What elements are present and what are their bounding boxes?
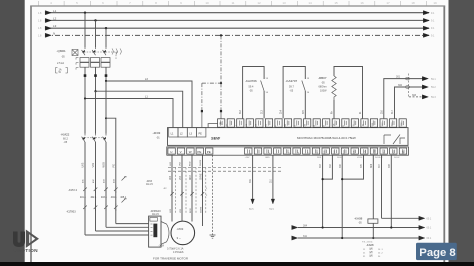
svg-text:12: 12 [257, 1, 261, 5]
node L2 drop junction [94, 19, 96, 21]
relay KA3706 contact [261, 81, 265, 92]
svg-text:NC: NC [403, 150, 405, 154]
bus left tiny refs [38, 12, 42, 37]
net 311 left arrow [292, 236, 298, 240]
cable shield dashed line 2 [168, 170, 281, 172]
cable tag W1T03 lower [122, 199, 126, 203]
wire L3 feed to drive [106, 81, 192, 128]
wire breaker out pole2 [95, 67, 97, 91]
svg-text:4G1.5: 4G1.5 [152, 213, 159, 216]
net 311 right arrow [419, 236, 425, 240]
ruler numbers [50, 1, 437, 5]
right gray video strip [449, 0, 474, 266]
node PE [220, 82, 222, 84]
svg-text:15: 15 [334, 1, 338, 5]
svg-text:GND: GND [375, 149, 377, 154]
svg-text:GNYE: GNYE [200, 159, 202, 166]
offpage arrow KA08 [419, 216, 425, 220]
svg-text:404.1: 404.1 [111, 197, 117, 199]
offpage labels right bottom [427, 218, 432, 241]
svg-text:U03: U03 [81, 162, 85, 167]
node coil to net311 [372, 237, 374, 239]
svg-text:-RB07: -RB07 [318, 76, 327, 80]
motor cable lower labels [170, 206, 203, 213]
motor terminal box X2A [149, 216, 161, 247]
svg-text:V03: V03 [91, 162, 95, 167]
svg-text:2.5 kA: 2.5 kA [57, 62, 64, 65]
drive top terminal row [218, 119, 407, 127]
drive input terminal L1 [169, 128, 178, 137]
digital input wire 306 [341, 155, 343, 237]
svg-text:-05: -05 [290, 90, 294, 93]
PE dash-dot vertical to drive PE [201, 83, 203, 110]
svg-text:100W: 100W [320, 90, 327, 93]
svg-text:59.4: 59.4 [249, 86, 254, 89]
drive input terminal PE [197, 128, 206, 137]
cable marker ellipse 2 [405, 86, 409, 89]
wire below squares [202, 112, 221, 127]
N dash-dot drop to P1 [220, 35, 222, 110]
watermark logo play arrow [26, 230, 39, 248]
svg-text:FOR TRAVERSE MOTOR: FOR TRAVERSE MOTOR [153, 256, 189, 260]
net 304 right arrow [419, 225, 425, 229]
node L1 feed [84, 97, 86, 99]
svg-text:59.1: 59.1 [431, 78, 436, 81]
terminal X1T2 col4 [114, 186, 118, 194]
relay KA3707 frame [283, 67, 305, 119]
terminal X1T803 col1 [83, 204, 87, 212]
motor terminal box tiny pins [151, 224, 153, 235]
terminal square pole1 [84, 74, 87, 77]
wire W03 to motor [106, 226, 149, 228]
svg-text:+24V: +24V [245, 157, 251, 159]
svg-text:60.1: 60.1 [427, 218, 432, 221]
breaker QM01 setting bracket [56, 68, 68, 74]
drive input terminal L2 [178, 128, 187, 137]
motor M03 circle [171, 221, 195, 245]
wire L1 feed to drive [85, 99, 173, 128]
wire L2 feed to drive [96, 91, 183, 127]
svg-text:24V: 24V [365, 149, 367, 153]
wire PE jog [106, 118, 116, 223]
bus L3 left arrow [45, 26, 51, 30]
wire breaker out pole1 [84, 67, 86, 98]
offpage arrow 2 [422, 85, 428, 89]
svg-text:SEW: SEW [211, 136, 220, 141]
svg-text:-KA08: -KA08 [354, 217, 363, 221]
svg-text:L2: L2 [53, 17, 57, 21]
left gray video strip [0, 0, 25, 266]
bus N wire (dashed) [45, 34, 429, 36]
svg-text:-QM01: -QM01 [57, 49, 67, 53]
breaker QM01 trip elements [112, 49, 121, 55]
node jumper 1 [322, 178, 324, 180]
drive cable wire U [171, 155, 173, 221]
svg-text:-X1T803: -X1T803 [66, 211, 76, 214]
svg-text:-M03: -M03 [177, 227, 184, 231]
cable wire labels [170, 173, 203, 180]
wire phase col1 down to KM22 [84, 99, 86, 134]
svg-text:N: N [53, 31, 55, 35]
node N bus tap [220, 34, 222, 36]
bus L3 wire [45, 27, 429, 29]
svg-text:59.5: 59.5 [269, 209, 274, 211]
ruler ticks [38, 1, 426, 6]
svg-text:+R: +R [334, 123, 336, 126]
node jumper 2 [341, 178, 343, 180]
analog out wire 1 with down arrow [252, 155, 254, 199]
wire breaker out pole3 [105, 67, 107, 81]
digital input wire 302 jumper [323, 155, 333, 179]
drive cable wire PE2 dashed [212, 155, 214, 235]
svg-text:-01: -01 [156, 137, 160, 140]
cable shield dashed line 1 [168, 167, 281, 169]
analog out wire 2 with down arrow [272, 155, 274, 199]
svg-text:3 ~: 3 ~ [177, 236, 182, 240]
wire phase col2 down to KM22 [95, 91, 97, 133]
bottom row right cell labels [250, 149, 406, 154]
svg-text:L3: L3 [53, 24, 57, 28]
contactor KM22 linkage [82, 137, 104, 139]
wire DO down 2 [390, 155, 392, 227]
right drop wire labels [320, 163, 391, 168]
wire U03 down [84, 142, 86, 235]
wire V03 down [95, 142, 97, 231]
svg-text:405.1: 405.1 [120, 197, 126, 199]
svg-text:304: 304 [303, 225, 308, 228]
digital input wire 303 [322, 155, 324, 227]
svg-text:11: 11 [231, 1, 234, 5]
bottom black bar [0, 262, 474, 266]
svg-text:16: 16 [360, 1, 364, 5]
bus right tiny refs [431, 12, 435, 37]
svg-text:-05: -05 [61, 56, 65, 59]
PE net end square [201, 110, 203, 112]
bus L2 right arrow [423, 18, 429, 22]
bus L1 left arrow [45, 11, 51, 15]
svg-text:17: 17 [386, 1, 390, 5]
drawing frame border top [30, 5, 445, 7]
svg-text:4 POLES: 4 POLES [173, 251, 184, 254]
svg-text:W03: W03 [190, 175, 192, 180]
node L1 drop junction [84, 12, 86, 14]
motor cable screen dashed verticals [176, 168, 206, 214]
svg-text:PE: PE [207, 150, 211, 154]
node L2 feed [94, 90, 96, 92]
wire drop L2 to breaker [95, 20, 97, 47]
offpage wire labels [431, 78, 436, 99]
bus L2 left arrow [45, 18, 51, 22]
relay KA08 feed wire [372, 155, 374, 219]
down arrow 2 [271, 199, 275, 204]
svg-text:-KA3706: -KA3706 [245, 79, 257, 83]
svg-text:N06: N06 [371, 163, 373, 168]
terminal X1T803 col2 [94, 204, 98, 212]
breaker QM01 handle symbol [72, 50, 78, 56]
svg-text:DO02: DO02 [394, 157, 400, 159]
bus N left arrow [45, 33, 51, 37]
wire drop L3 to breaker [105, 28, 107, 47]
contactor KM22 pole 3 [103, 134, 106, 143]
svg-text:Page 8: Page 8 [419, 247, 455, 259]
svg-text:10: 10 [205, 1, 209, 5]
down arrow 1 [251, 199, 255, 204]
terminal X1T2 col1 [83, 186, 87, 194]
thermal overload block pole 3 [101, 58, 110, 68]
svg-text:V03: V03 [180, 175, 182, 180]
P1 net end square [220, 110, 222, 112]
bus L2 wire [45, 19, 429, 21]
horizontal net 301 (DO wire right) [382, 217, 420, 219]
motor terminal box inner connector [150, 217, 157, 221]
svg-text:-05: -05 [64, 141, 68, 144]
svg-text:MOVITRAC MC07B-0008-5A3-4-00 0: MOVITRAC MC07B-0008-5A3-4-00 0.75kW [297, 136, 356, 140]
svg-text:-KA3707: -KA3707 [286, 79, 298, 83]
svg-text:68Ohm: 68Ohm [319, 86, 327, 89]
node net304 b [390, 226, 392, 228]
offpage dashed wire 3 [409, 96, 423, 98]
thermal overload block pole 1 [80, 58, 89, 68]
cable marker ellipse 1 [405, 77, 409, 80]
svg-text:401.1: 401.1 [80, 197, 86, 199]
svg-text:PE: PE [197, 150, 201, 154]
wire phase col3 down to KM22 [105, 81, 107, 134]
svg-text:PE: PE [199, 132, 203, 135]
bus N right arrow [423, 33, 429, 37]
svg-text:UMOTION: UMOTION [13, 248, 38, 254]
wire W03 down [105, 142, 107, 227]
breaker QM01 pole 1 [82, 47, 85, 55]
svg-text:P.S. 24Vdc: P.S. 24Vdc [362, 241, 374, 243]
node L3 feed [105, 80, 107, 82]
breaker QM01 pole 3 [103, 47, 106, 55]
Page 8 badge [416, 243, 457, 260]
thermal overload block pole 2 [91, 58, 100, 68]
terminal X1T2 col2 [94, 186, 98, 194]
svg-text:W03: W03 [102, 162, 106, 168]
watermark logo U [13, 232, 25, 248]
digital input wire 305 jumper [342, 155, 363, 179]
wire labels above X1T2 row [83, 179, 116, 183]
motor terminal box gland (dark bar) [153, 224, 157, 238]
drive input terminal L3 [187, 128, 196, 137]
net 304 left arrow [292, 225, 298, 229]
motor cable mid labels [163, 188, 208, 197]
contactor KM22 pole 2 [92, 134, 95, 143]
svg-text:403.1: 403.1 [101, 197, 107, 199]
svg-text:R-: R- [360, 111, 362, 114]
svg-text:-X2A: -X2A [159, 244, 165, 247]
wire V03 to motor [96, 230, 149, 232]
svg-text:311: 311 [303, 235, 307, 238]
bus L3 right arrow [423, 26, 429, 30]
svg-text:U: U [170, 150, 172, 154]
terminal square pole2 [94, 74, 97, 77]
relay KA3707 contact [302, 81, 306, 92]
offpage arrow 1 [422, 77, 428, 81]
svg-text:59.2: 59.2 [431, 86, 436, 89]
bus L1 right arrow [423, 11, 429, 15]
svg-text:L1: L1 [53, 9, 57, 13]
relay KA08 coil [368, 219, 378, 223]
wire DO to offpage 2 [395, 87, 423, 118]
svg-text:GNYE: GNYE [201, 206, 203, 213]
relay KA08 coil bottom wire [372, 223, 374, 238]
svg-text:-X1T2 4: -X1T2 4 [68, 189, 78, 192]
svg-text:60.1: 60.1 [427, 237, 432, 240]
drive cable wire W [191, 155, 193, 221]
top row cell tick labels [220, 120, 403, 125]
svg-text:-4F03: -4F03 [153, 131, 161, 135]
node net304 a [322, 226, 324, 228]
wire drop L1 to breaker [84, 13, 86, 47]
drawing frame border right [443, 6, 445, 262]
offpage arrow 3 [422, 95, 428, 99]
KA08 contact glyphs [370, 248, 372, 257]
braking resistor RB07 zigzag [332, 76, 336, 100]
drive cable wire PE1 [202, 155, 204, 226]
bottom row U V W PE labels [170, 150, 211, 154]
terminal X1T803 col4 [114, 204, 118, 212]
svg-text:301: 301 [396, 76, 401, 79]
drive internal relay contact [384, 135, 405, 145]
svg-text:VO24: VO24 [357, 157, 363, 159]
svg-text:13: 13 [282, 1, 286, 5]
wire U03 to motor [85, 234, 149, 236]
bottom row cell tick labels [248, 149, 404, 153]
terminal square pole3 [105, 74, 108, 77]
svg-text:U03: U03 [170, 175, 172, 180]
svg-text:PE: PE [111, 164, 115, 168]
svg-text:-KM22: -KM22 [61, 133, 70, 137]
PE dash-dot horizontal [202, 82, 221, 84]
contactor KM22 pole 1 [82, 134, 85, 143]
cable marker dashed vertical [408, 74, 410, 98]
drawing frame border left [30, 6, 32, 262]
horizontal net 304 [298, 227, 419, 229]
bottom row sub labels [245, 157, 401, 159]
analog wire labels [250, 178, 272, 183]
node L3 drop junction [105, 27, 107, 29]
drive main box 4F03 [168, 128, 409, 146]
svg-text:V: V [180, 150, 182, 154]
ground symbol right of motor [210, 235, 216, 238]
thermal hooks left [76, 58, 79, 70]
svg-text:NO: NO [394, 150, 396, 154]
horizontal net 311 [298, 237, 419, 239]
braking resistor RB07 frame [334, 67, 363, 119]
svg-text:GNYE: GNYE [201, 173, 203, 180]
svg-text:60.1: 60.1 [427, 227, 432, 230]
node PE tap [105, 117, 107, 119]
motor flange [161, 222, 169, 245]
svg-text:59.3: 59.3 [431, 96, 436, 99]
breaker QM01 linkage dashed [84, 51, 119, 53]
svg-text:19: 19 [433, 1, 437, 5]
relay KA3706 frame [243, 67, 265, 119]
svg-text:-05: -05 [358, 221, 362, 224]
svg-text:W03: W03 [190, 208, 192, 213]
drive bottom terminal row [167, 147, 409, 155]
svg-text:402.1: 402.1 [91, 197, 97, 199]
svg-text:-KA08: -KA08 [366, 243, 374, 247]
terminal X1T803 col3 [104, 204, 108, 212]
P1 connector wire [208, 124, 218, 128]
svg-text:14: 14 [308, 1, 312, 5]
svg-text:GND: GND [265, 157, 270, 159]
wire DO down 1 [381, 155, 383, 218]
svg-text:-05: -05 [249, 90, 253, 93]
drive cable wire V [181, 155, 183, 221]
svg-text:18: 18 [411, 1, 415, 5]
svg-text:W: W [189, 150, 192, 154]
cable tag W1T03 upper [122, 177, 126, 181]
component leg wire labels [240, 109, 394, 114]
bus L1 wire [45, 12, 429, 14]
wire PE to motor [116, 223, 149, 225]
node net311 a [341, 237, 343, 239]
svg-text:59.5: 59.5 [249, 209, 254, 211]
svg-text:-05: -05 [321, 82, 325, 85]
svg-text:W02: W02 [189, 161, 191, 166]
svg-text:303: 303 [412, 94, 417, 97]
motor cable terminal X2T row [170, 191, 204, 198]
svg-text:59.7: 59.7 [289, 86, 294, 89]
breaker QM01 pole 2 [92, 47, 95, 55]
terminal X1T2 col3 [104, 186, 108, 194]
left bottom cell wire labels [170, 159, 202, 166]
svg-text:302: 302 [398, 84, 403, 87]
svg-text:4G1.5: 4G1.5 [146, 183, 153, 186]
wire numbers between terminals [80, 197, 127, 199]
wire DO to offpage 1 [384, 79, 423, 119]
